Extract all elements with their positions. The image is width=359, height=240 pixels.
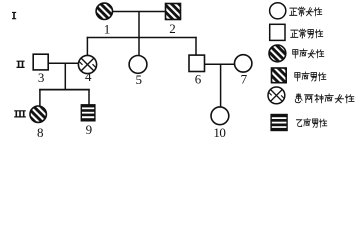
wire sibship line generation II: [87, 37, 197, 39]
legend row 2 text: normal male: [291, 29, 323, 38]
svg-text:10: 10: [213, 125, 225, 140]
svg-text:6: 6: [195, 72, 202, 87]
individual I-1: affected female (disease A), hatched circle: [96, 3, 112, 19]
legend row 4 symbol: disease-A male hatched square: [272, 68, 287, 83]
svg-text:3: 3: [38, 70, 45, 85]
wire marriage line II-3 to II-4: [48, 62, 79, 64]
wire descent from II-6/II-7 couple to III-10: [220, 64, 222, 107]
svg-text:8: 8: [37, 125, 44, 140]
wire drop to II-4: [86, 37, 88, 56]
individual II-5: normal female, circle: [129, 56, 147, 74]
legend row 3 symbol: disease-A female hatched circle: [269, 45, 286, 62]
wire marriage line II-6 to II-7: [205, 63, 236, 65]
wire drop to II-6: [195, 37, 197, 56]
individual II-7: normal female, circle: [235, 55, 252, 72]
svg-text:5: 5: [136, 72, 143, 87]
legend row 1 symbol: normal female circle: [270, 3, 286, 19]
svg-text:2: 2: [169, 21, 176, 36]
legend row 4 text: disease-A male: [295, 72, 326, 81]
individual II-6: normal male, square: [189, 55, 205, 71]
individual I-2: affected male (disease A), hatched square: [166, 4, 181, 20]
individual II-3: normal male, square: [33, 54, 48, 70]
svg-text:9: 9: [86, 122, 93, 137]
svg-text:4: 4: [85, 69, 92, 84]
legend row 3 text: disease-A female: [293, 49, 324, 58]
legend row 5 symbol: both-diseases female circle with X: [268, 87, 285, 104]
individual III-8: affected female (disease A), hatched circle: [30, 106, 46, 122]
wire sibship line generation III left: [39, 89, 89, 91]
wire drop to III-9: [88, 89, 90, 105]
wire drop to III-8: [39, 89, 41, 107]
legend row 2 symbol: normal male square: [270, 24, 285, 40]
wire descent from I couple to sibship and down to II-5: [138, 12, 140, 57]
individual III-9: disease-B male, horizontally striped square: [81, 105, 95, 121]
wire descent from II-3/II-4 couple: [64, 63, 66, 89]
generation label III: [14, 110, 26, 117]
generation label II: [17, 61, 25, 68]
legend row 1 text: normal female: [290, 7, 322, 16]
individual II-4: female with both diseases, circle with X cross-hatch: [78, 55, 96, 73]
legend row 6 text: disease-B male: [296, 118, 326, 127]
generation label I: [12, 12, 16, 19]
svg-text:1: 1: [104, 21, 111, 36]
wire marriage line I-1 to I-2: [112, 11, 166, 13]
svg-text:7: 7: [241, 72, 248, 87]
legend row 5 text: female with both diseases: [295, 94, 354, 103]
individual III-10: normal female, circle: [211, 107, 229, 125]
legend row 6 symbol: disease-B male striped square: [271, 115, 287, 131]
